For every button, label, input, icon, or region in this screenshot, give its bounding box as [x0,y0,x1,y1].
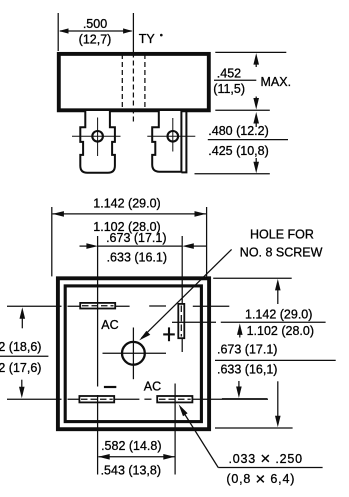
side view body outline [59,54,209,110]
top left AC slot [80,303,115,309]
centerline top slot row [7,305,62,307]
top dimension 1.142 line [53,213,206,215]
top view outer square [58,278,209,429]
left dimension fraction bar [0,355,48,357]
svg-text:.543 (13,8): .543 (13,8) [101,463,161,477]
minus label [104,386,116,388]
svg-text:.732 (18,6): .732 (18,6) [0,340,41,354]
hole leader line [142,249,232,338]
dimension .500 extension line left [57,13,59,51]
plus slot [178,304,184,338]
bottom right slot [157,396,192,402]
svg-text:.033 × .250: .033 × .250 [229,449,303,468]
centerline bottom right column [174,384,176,475]
hidden hole dashed line left [121,54,123,110]
dimension .425 down arrow [255,158,257,164]
right dimension .673 up arrow [237,323,243,335]
right dimension 1.142 down arrow [277,381,279,419]
center mounting hole [122,342,145,365]
left dimension up arrow [20,307,26,319]
right dimension bottom reference line [215,427,293,429]
dimension .425 bottom reference line [195,173,270,175]
left terminal outline [80,111,115,173]
right terminal crosshair [147,135,195,137]
slot size leader line [181,408,219,468]
hidden hole dashed line right [144,54,146,110]
bottom dimension line [98,456,174,458]
svg-text:.425 (10,8): .425 (10,8) [208,144,268,158]
centerline left column [97,236,99,387]
plus label [163,333,175,335]
slot size underline [218,467,322,469]
hole crosshair [103,352,167,354]
dimension .500 extension line right [132,13,134,52]
svg-text:AC: AC [101,318,118,332]
dimension .452 down arrow [255,97,257,105]
center line dashed [132,53,134,122]
right dimension .673 down arrow [238,381,240,389]
right dimension fraction bar [221,321,326,323]
svg-text:.633 (16.1): .633 (16.1) [107,250,167,264]
svg-text:(11,5): (11,5) [213,82,245,96]
svg-text:NO. 8 SCREW: NO. 8 SCREW [240,246,323,260]
dimension .452 top reference line [215,51,286,53]
left dimension down arrow [21,380,23,390]
svg-text:1.102 (28.0): 1.102 (28.0) [247,324,314,338]
dimension .500 line [60,30,132,32]
right dimension 1.142 up arrow [275,279,281,291]
bottom left slot [79,396,114,402]
right dimension .673 fraction bar [215,359,336,361]
svg-text:.633 (16,1): .633 (16,1) [217,362,277,376]
top dimension .673 line [98,245,182,247]
right dimension top reference line [213,277,292,279]
svg-text:1.142 (29.0): 1.142 (29.0) [93,197,160,211]
right terminal edge tab [181,111,186,172]
dimension .452 up arrow [253,53,259,65]
left terminal hole [92,131,103,142]
right dimension bottom slot reference line [222,398,267,400]
svg-text:.500: .500 [83,17,107,31]
svg-text:.582 (14.8): .582 (14.8) [101,439,161,453]
svg-text:(12,7): (12,7) [79,33,112,47]
right terminal hole [168,131,179,142]
svg-text:AC: AC [144,379,161,393]
dimension .480 up arrow [253,112,259,124]
left terminal crosshair [72,135,121,137]
svg-text:.452: .452 [217,66,241,80]
centerline plus slot row [172,321,178,323]
svg-text:1.142 (29.0): 1.142 (29.0) [245,307,312,321]
svg-text:.673 (17.1): .673 (17.1) [106,231,166,245]
top view inner square [65,286,201,422]
svg-text:.692 (17,6): .692 (17,6) [0,361,41,375]
dimension .452 bottom reference line [215,109,269,111]
top dimension 1.142 extension lines [51,207,53,276]
right terminal outline [152,111,181,172]
svg-text:(0,8 × 6,4): (0,8 × 6,4) [226,469,295,488]
centerline plus slot column [181,236,183,352]
centerline bottom slots row [7,398,62,400]
svg-text:MAX.: MAX. [261,75,292,89]
dimension .480 fraction bar [208,139,288,141]
svg-text:.673 (17.1): .673 (17.1) [217,342,277,356]
svg-text:HOLE FOR: HOLE FOR [250,228,314,242]
dimension .452 fraction bar [214,79,256,81]
svg-text:TY: TY [139,32,156,46]
svg-text:.480 (12.2): .480 (12.2) [208,124,268,138]
